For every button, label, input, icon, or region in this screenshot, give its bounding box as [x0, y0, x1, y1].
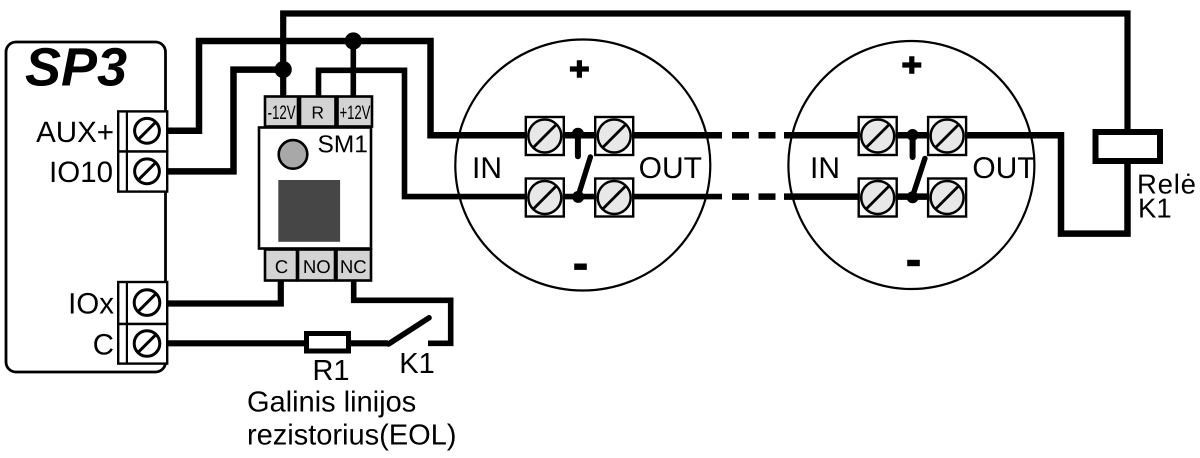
- detector 1 screw terminal top-left: [526, 117, 564, 155]
- control panel SP3 box: [6, 42, 166, 372]
- detector 1 switch stub: [575, 134, 581, 156]
- label Galinis linijos: [248, 390, 415, 417]
- detector 1 junction node bottom: [572, 191, 584, 203]
- detector 1 plus mark: [570, 60, 589, 77]
- wire IO10 to -12V terminal: [166, 70, 283, 172]
- detector 2 junction node bottom: [907, 191, 919, 203]
- detector 2 screw terminal top-left: [859, 117, 897, 155]
- label Rele: [1139, 174, 1194, 194]
- label SM1: [319, 135, 367, 152]
- label C: [94, 334, 113, 355]
- detector 1 junction node top: [572, 128, 584, 140]
- terminal R: [300, 97, 336, 127]
- detector 1 minus mark: [574, 264, 587, 270]
- wire R terminal to detector 1 IN bottom: [319, 70, 723, 196]
- terminal block IOx: [118, 282, 167, 324]
- smoke detector 1 circle: [455, 40, 710, 291]
- detector 1 label OUT: [640, 157, 701, 178]
- detector 2 screw terminal bottom-right: [928, 179, 966, 217]
- detector 2 screw terminal bottom-left: [859, 179, 897, 217]
- dashed line segments top row: [732, 132, 776, 139]
- detector 1 switch lever: [578, 157, 590, 196]
- terminal C of SM1: [265, 250, 297, 281]
- wire IOx to SM1 terminal C: [166, 276, 281, 304]
- terminal +12V: [338, 97, 373, 127]
- detector 2 screw terminal top-right: [928, 117, 966, 155]
- module SM1 body: [259, 128, 371, 249]
- terminal NO: [298, 250, 335, 281]
- wire AUX+ to +12V bus and detector 1 IN top: [166, 41, 722, 135]
- terminal block C: [118, 324, 167, 364]
- detector 2 minus mark: [907, 260, 920, 266]
- terminal NC: [337, 250, 372, 281]
- label rezistorius(EOL): [249, 423, 455, 450]
- label R1: [315, 360, 348, 380]
- relay K1 coil: [1096, 132, 1161, 161]
- switch K1 lever: [389, 318, 430, 344]
- wire detector 2 OUT top to relay K1 bottom: [966, 135, 1128, 233]
- resistor R1: [307, 334, 349, 352]
- junction node on +12V bus: [345, 32, 362, 49]
- detector 1 label IN: [475, 157, 500, 178]
- terminal -12V: [265, 97, 298, 127]
- wire resistor R1 to switch K1: [348, 340, 388, 346]
- label SP3: [26, 48, 127, 86]
- detector 2 label OUT: [974, 157, 1035, 178]
- detector 2 label IN: [813, 157, 838, 178]
- detector 1 screw terminal top-right: [595, 117, 633, 155]
- wire switch K1 to SM1 terminal NC: [354, 276, 451, 343]
- label K1 relay: [1140, 199, 1170, 218]
- terminal block IO10: [118, 152, 167, 192]
- terminal block AUX+: [118, 111, 167, 151]
- label AUX+: [36, 122, 112, 143]
- SM1 relay block: [278, 180, 340, 242]
- detector 2 switch stub: [910, 135, 916, 157]
- detector 2 junction node top: [907, 129, 919, 141]
- detector 1 screw terminal bottom-left: [526, 179, 564, 217]
- label IOx: [71, 293, 114, 314]
- junction node at -12V riser: [275, 61, 292, 78]
- dashed line segments bottom row: [732, 193, 776, 200]
- SM1 LED indicator: [279, 140, 308, 169]
- wire detector 2 IN top row: [784, 132, 966, 139]
- detector 2 switch lever: [913, 159, 925, 197]
- label IO10: [52, 161, 112, 182]
- wire C to resistor R1: [166, 340, 320, 346]
- wire detector 2 IN bottom row: [784, 193, 966, 200]
- detector 2 plus mark: [902, 56, 921, 73]
- label K1 switch: [402, 353, 434, 373]
- smoke detector 2 circle: [788, 41, 1034, 289]
- detector 1 screw terminal bottom-right: [595, 179, 633, 217]
- wire junction to +12V terminal: [350, 41, 356, 98]
- wire -12V terminal riser to top bus and relay K1 top: [283, 14, 1127, 132]
